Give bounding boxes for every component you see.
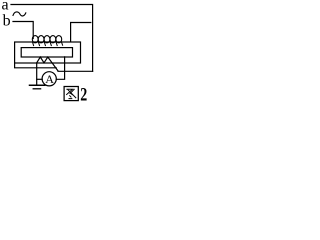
AC source tilde xyxy=(13,12,26,16)
wire ammeter left stub xyxy=(37,78,43,80)
wire coil right end up and over xyxy=(71,23,91,42)
wire a top and right vertical xyxy=(11,5,93,72)
svg-text:A: A xyxy=(45,72,54,86)
svg-text:b: b xyxy=(3,13,11,30)
figure label 图 (hand drawn) xyxy=(64,87,78,101)
ground bar short xyxy=(33,88,40,90)
transformer core inner rectangle xyxy=(21,48,72,57)
svg-text:2: 2 xyxy=(80,83,87,104)
ammeter A circle xyxy=(42,72,56,86)
wire left edge drop and horizontal to tail xyxy=(15,63,57,68)
wire b horizontal and drop to coil xyxy=(13,22,33,39)
wire winding tail to right vertical xyxy=(58,70,93,72)
wire winding drop and ammeter right stub xyxy=(56,57,64,79)
transformer core outer rectangle xyxy=(15,42,81,63)
ground wire vertical xyxy=(36,63,38,85)
svg-text:a: a xyxy=(2,0,9,14)
primary coil P loops xyxy=(32,36,61,43)
secondary winding zigzag on bottom limb xyxy=(37,57,58,71)
primary coil crossing tails xyxy=(33,42,63,45)
ground bar long xyxy=(30,84,45,86)
